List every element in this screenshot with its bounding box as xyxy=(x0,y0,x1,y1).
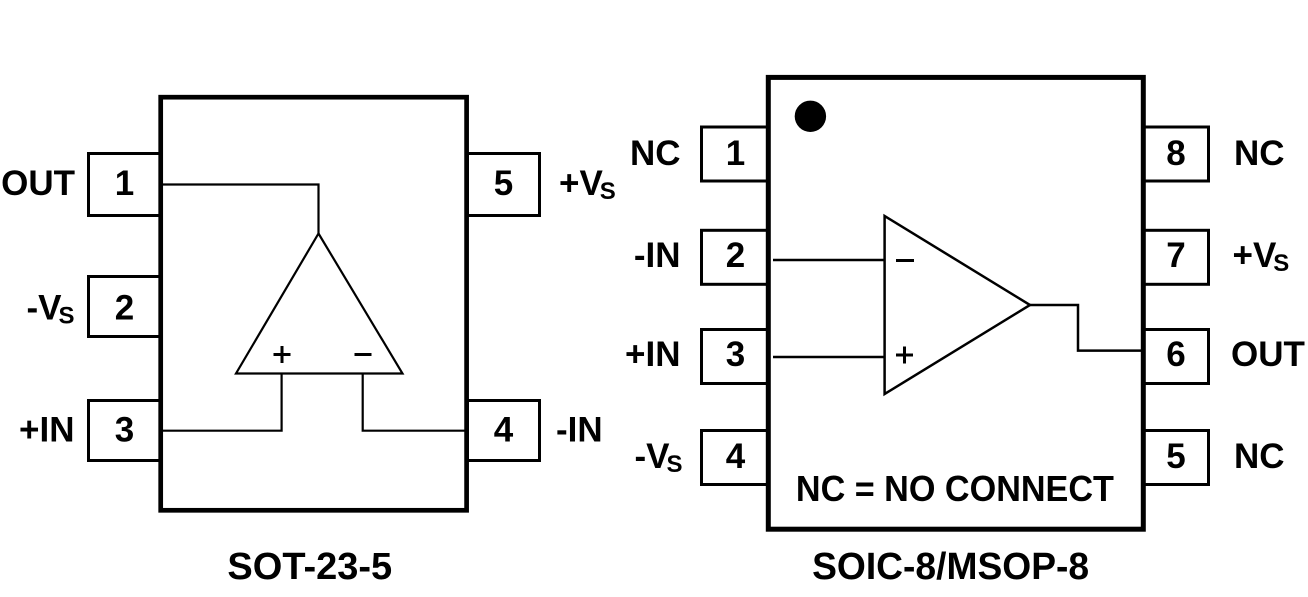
svg-text:NC: NC xyxy=(1234,437,1285,476)
svg-text:1: 1 xyxy=(726,134,745,173)
svg-text:SOT-23-5: SOT-23-5 xyxy=(227,546,392,588)
svg-text:+IN: +IN xyxy=(19,411,74,450)
svg-text:OUT: OUT xyxy=(1,164,75,203)
svg-text:1: 1 xyxy=(115,164,134,203)
svg-text:2: 2 xyxy=(726,236,745,275)
svg-text:-IN: -IN xyxy=(556,411,603,450)
svg-text:4: 4 xyxy=(494,411,514,450)
svg-text:-IN: -IN xyxy=(634,236,681,275)
svg-text:NC = NO CONNECT: NC = NO CONNECT xyxy=(796,468,1114,509)
svg-text:5: 5 xyxy=(1166,437,1185,476)
svg-text:3: 3 xyxy=(115,411,134,450)
svg-text:NC: NC xyxy=(1234,134,1285,173)
svg-text:5: 5 xyxy=(494,164,513,203)
svg-text:+IN: +IN xyxy=(625,335,680,374)
svg-text:3: 3 xyxy=(726,335,745,374)
svg-text:SOIC-8/MSOP-8: SOIC-8/MSOP-8 xyxy=(812,546,1089,588)
svg-text:7: 7 xyxy=(1166,236,1185,275)
svg-text:2: 2 xyxy=(115,289,134,328)
svg-text:NC: NC xyxy=(630,134,681,173)
svg-text:6: 6 xyxy=(1166,335,1185,374)
svg-text:8: 8 xyxy=(1166,134,1185,173)
svg-text:OUT: OUT xyxy=(1231,335,1305,374)
svg-text:4: 4 xyxy=(726,437,746,476)
